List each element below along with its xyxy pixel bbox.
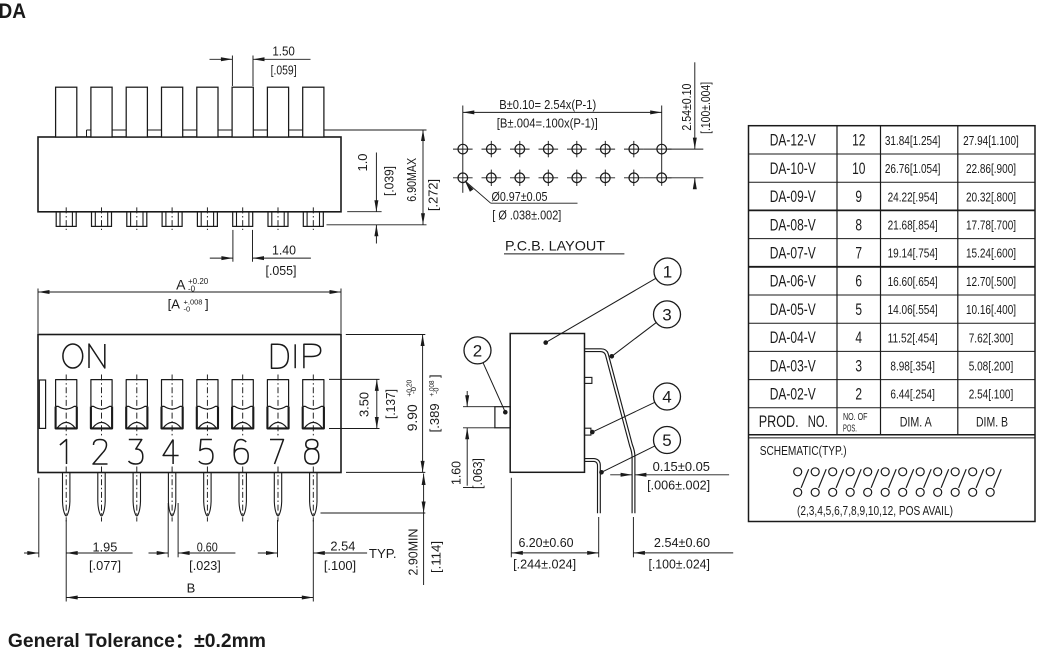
side view small mold tabs	[585, 377, 592, 435]
switch symbol S11	[969, 468, 984, 497]
svg-text:5.08[.200]: 5.08[.200]	[969, 359, 1014, 374]
svg-text:6.44[.254]: 6.44[.254]	[890, 387, 935, 402]
svg-text:2.90MIN: 2.90MIN	[407, 529, 421, 576]
svg-text:[.063]: [.063]	[471, 458, 485, 489]
svg-text:4: 4	[662, 388, 671, 407]
svg-text:27.94[1.100]: 27.94[1.100]	[963, 133, 1019, 148]
svg-text:B: B	[187, 581, 196, 596]
svg-text:2.54±0.60: 2.54±0.60	[654, 536, 710, 550]
svg-text:[.100]: [.100]	[324, 559, 356, 573]
svg-text:1.50: 1.50	[272, 45, 295, 59]
dimension 2.54±0.10 [.100±.004] (row pitch)	[680, 62, 713, 189]
svg-text:P.C.B. LAYOUT: P.C.B. LAYOUT	[505, 238, 605, 254]
svg-text:SCHEMATIC(TYP.): SCHEMATIC(TYP.)	[760, 444, 847, 458]
switch symbol S10	[951, 468, 966, 497]
svg-text:[.114]: [.114]	[430, 541, 444, 573]
svg-text:[.059]: [.059]	[271, 63, 297, 77]
switch symbol S2	[811, 468, 826, 497]
svg-text:TYP.: TYP.	[369, 547, 397, 561]
switch symbol S3	[829, 468, 844, 497]
switch position centerlines	[66, 375, 313, 522]
svg-text:5: 5	[855, 300, 862, 319]
dimension B±0.10 = 2.54x(P-1)	[463, 98, 662, 131]
svg-text:4: 4	[855, 328, 862, 347]
side view body	[510, 334, 584, 473]
switch windows with rockers x8	[56, 380, 324, 429]
svg-text:[.389: [.389	[428, 403, 442, 432]
svg-text:]: ]	[428, 375, 442, 378]
dimension 0.15±0.05 [.006±.002] (pin thickness)	[610, 460, 729, 493]
svg-text:2: 2	[855, 385, 862, 404]
svg-text:21.68[.854]: 21.68[.854]	[888, 218, 938, 233]
svg-text:DA-09-V: DA-09-V	[770, 187, 816, 206]
svg-text:PROD.: PROD.	[759, 412, 799, 431]
svg-text:31.84[1.254]: 31.84[1.254]	[885, 133, 941, 148]
svg-text:DA-06-V: DA-06-V	[770, 272, 816, 291]
side view lower bent pin	[585, 459, 601, 514]
svg-text:[.039]: [.039]	[383, 166, 397, 196]
svg-text:0.60: 0.60	[197, 540, 218, 554]
svg-text:3: 3	[662, 305, 671, 324]
svg-text:]: ]	[205, 297, 209, 312]
dimension 6.90MAX [.272] (overall height)	[327, 130, 441, 225]
svg-text:DA-05-V: DA-05-V	[770, 300, 816, 319]
product table grid	[749, 126, 1036, 522]
svg-text:[.100±.024]: [.100±.024]	[648, 558, 710, 572]
switch symbol S5	[864, 468, 879, 497]
svg-text:B±0.10= 2.54x(P-1): B±0.10= 2.54x(P-1)	[499, 98, 596, 112]
svg-text:A: A	[176, 277, 186, 293]
pad diameter callout Ø0.97±0.05	[465, 181, 578, 223]
svg-text:DA-03-V: DA-03-V	[770, 356, 816, 375]
svg-text:26.76[1.054]: 26.76[1.054]	[885, 161, 941, 176]
switch symbol S7	[899, 468, 914, 497]
top view actuator tabs x8	[56, 87, 324, 137]
dimension 2.90MIN [.114] (pin length)	[321, 474, 444, 586]
schematic caption	[797, 504, 953, 518]
svg-text:1: 1	[663, 263, 672, 282]
svg-text:[.077]: [.077]	[89, 559, 121, 573]
svg-text:20.32[.800]: 20.32[.800]	[966, 189, 1016, 204]
svg-text:[B±.004=.100x(P-1)]: [B±.004=.100x(P-1)]	[497, 117, 598, 131]
svg-text:(2,3,4,5,6,7,8,9,10,12, POS AV: (2,3,4,5,6,7,8,9,10,12, POS AVAIL)	[797, 504, 953, 518]
svg-text:24.22[.954]: 24.22[.954]	[888, 189, 938, 204]
svg-text:6.20±0.60: 6.20±0.60	[518, 536, 573, 550]
switch symbol S6	[881, 468, 896, 497]
svg-text:1.0: 1.0	[356, 153, 370, 171]
dimension 6.20±0.60 [.244±.024]	[511, 478, 598, 572]
svg-text:2.54[.100]: 2.54[.100]	[969, 387, 1014, 402]
svg-text:DA-12-V: DA-12-V	[770, 131, 816, 150]
svg-text:9: 9	[855, 187, 862, 206]
svg-text:19.14[.754]: 19.14[.754]	[888, 246, 938, 261]
svg-text:[.100±.004]: [.100±.004]	[699, 82, 713, 134]
svg-text:-0: -0	[188, 285, 196, 294]
svg-text:1.60: 1.60	[450, 461, 464, 485]
svg-text:1.95: 1.95	[93, 541, 118, 555]
series title DA	[0, 0, 26, 23]
table header row	[759, 412, 1008, 435]
callout 1 (body)	[543, 258, 681, 345]
svg-text:POS.: POS.	[843, 423, 857, 434]
side view actuator	[495, 407, 510, 428]
svg-text:[.137]: [.137]	[384, 389, 398, 419]
svg-text:-0: -0	[433, 387, 440, 394]
dimension 0.60 [.023] (pin thickness)	[149, 503, 236, 573]
switch symbol S4	[846, 468, 861, 497]
dimension 1.60 [.063] (actuator height)	[450, 391, 496, 489]
svg-text:8: 8	[855, 215, 862, 234]
general tolerance note	[8, 630, 266, 652]
svg-text:[A: [A	[168, 297, 181, 312]
svg-text:Ø0.97±0.05: Ø0.97±0.05	[492, 190, 548, 204]
svg-text:14.06[.554]: 14.06[.554]	[888, 302, 938, 317]
svg-text:6.90MAX: 6.90MAX	[405, 157, 419, 202]
svg-text:[ Ø .038±.002]: [ Ø .038±.002]	[492, 209, 561, 223]
svg-text:DA-02-V: DA-02-V	[770, 385, 816, 404]
dimension 1.0 [.039] (pin protrusion)	[347, 153, 396, 244]
svg-text:DA: DA	[0, 0, 26, 23]
svg-text:NO. OF: NO. OF	[843, 412, 868, 423]
side view upper bent pin	[585, 349, 635, 514]
svg-text:7.62[.300]: 7.62[.300]	[969, 330, 1014, 345]
svg-text:15.24[.600]: 15.24[.600]	[966, 246, 1016, 261]
dimension 1.40 [.055] (pin width)	[210, 230, 311, 278]
dimension 2.54±0.60 [.100±.024]	[633, 517, 733, 572]
svg-text:5: 5	[662, 431, 671, 450]
dimension A +0.20/-0 [A +.008/-0] (overall width)	[38, 277, 341, 334]
switch symbol S12	[986, 468, 1001, 497]
svg-text:7: 7	[855, 244, 862, 263]
svg-text:DIM. B: DIM. B	[976, 414, 1008, 430]
svg-text:0.15±0.05: 0.15±0.05	[653, 460, 710, 474]
svg-text:12: 12	[852, 131, 865, 150]
svg-text:DA-04-V: DA-04-V	[770, 328, 816, 347]
switch symbol S8	[916, 468, 931, 497]
top view: DIP switch body (plan)	[38, 130, 427, 212]
svg-text:2.54: 2.54	[330, 540, 355, 554]
callout 2 (actuator)	[464, 337, 508, 415]
svg-text:8.98[.354]: 8.98[.354]	[890, 359, 935, 374]
DIP marking (stick letters)	[272, 344, 321, 368]
table rows text	[770, 131, 1019, 404]
svg-text:12.70[.500]: 12.70[.500]	[966, 274, 1016, 289]
svg-text:22.86[.900]: 22.86[.900]	[966, 161, 1016, 176]
svg-text:[.055]: [.055]	[266, 264, 297, 278]
dimension 3.50 [.137] (window height)	[329, 379, 398, 428]
ON marking (stick letters)	[63, 344, 105, 368]
top view bottom pins x8 with centerlines	[56, 207, 323, 230]
svg-text:3: 3	[855, 356, 862, 375]
svg-text:DA-10-V: DA-10-V	[770, 159, 816, 178]
svg-text:-0: -0	[184, 305, 191, 314]
svg-text:3.50: 3.50	[358, 392, 372, 417]
front pins x8 (needle shape)	[63, 473, 318, 516]
front view: DIP switch body with ON/DIP marking	[38, 335, 341, 473]
dimension 1.50 [.059] (tab width)	[210, 45, 311, 87]
switch symbol S1	[794, 468, 809, 497]
svg-text:[.006±.002]: [.006±.002]	[647, 479, 710, 493]
svg-text:1.40: 1.40	[272, 244, 296, 258]
svg-text:11.52[.454]: 11.52[.454]	[888, 330, 938, 345]
svg-text:10: 10	[852, 159, 865, 178]
svg-text:NO.: NO.	[808, 412, 828, 431]
dimension 1.95 [.077]	[24, 478, 133, 602]
svg-text:10.16[.400]: 10.16[.400]	[966, 302, 1016, 317]
callout 5 (lower pin)	[599, 427, 680, 475]
svg-text:[.244±.024]: [.244±.024]	[513, 558, 576, 572]
svg-text:16.60[.654]: 16.60[.654]	[888, 274, 938, 289]
position digits 1-8 (stick digits)	[60, 440, 319, 465]
svg-text:9.90: 9.90	[405, 404, 420, 431]
svg-text:2: 2	[473, 341, 482, 360]
svg-text:DA-07-V: DA-07-V	[770, 244, 816, 263]
callout 4 (mold tab)	[590, 383, 681, 434]
dimension 2.54 TYP. [.100] (pin pitch)	[258, 520, 397, 602]
svg-text:-0: -0	[409, 387, 418, 394]
svg-text:2.54±0.10: 2.54±0.10	[680, 84, 694, 131]
P.C.B. layout pads 8x2	[453, 106, 703, 193]
svg-text:17.78[.700]: 17.78[.700]	[966, 218, 1016, 233]
svg-text:DA-08-V: DA-08-V	[770, 215, 816, 234]
svg-text:6: 6	[855, 272, 862, 291]
dimension B (pin1 to pin8 centers)	[66, 581, 313, 600]
dimension 9.90 +0.20/-0 [.389 +.008/-0] (body height)	[346, 335, 442, 473]
P.C.B. LAYOUT label	[504, 238, 624, 254]
svg-text:General Tolerance：±0.2mm: General Tolerance：±0.2mm	[8, 630, 266, 652]
switch symbol S9	[934, 468, 949, 497]
callout 3 (upper pin)	[610, 301, 681, 359]
svg-text:DIM. A: DIM. A	[900, 414, 932, 430]
svg-text:[.272]: [.272]	[427, 179, 441, 211]
schematic section	[760, 444, 847, 458]
svg-text:[.023]: [.023]	[189, 559, 221, 573]
